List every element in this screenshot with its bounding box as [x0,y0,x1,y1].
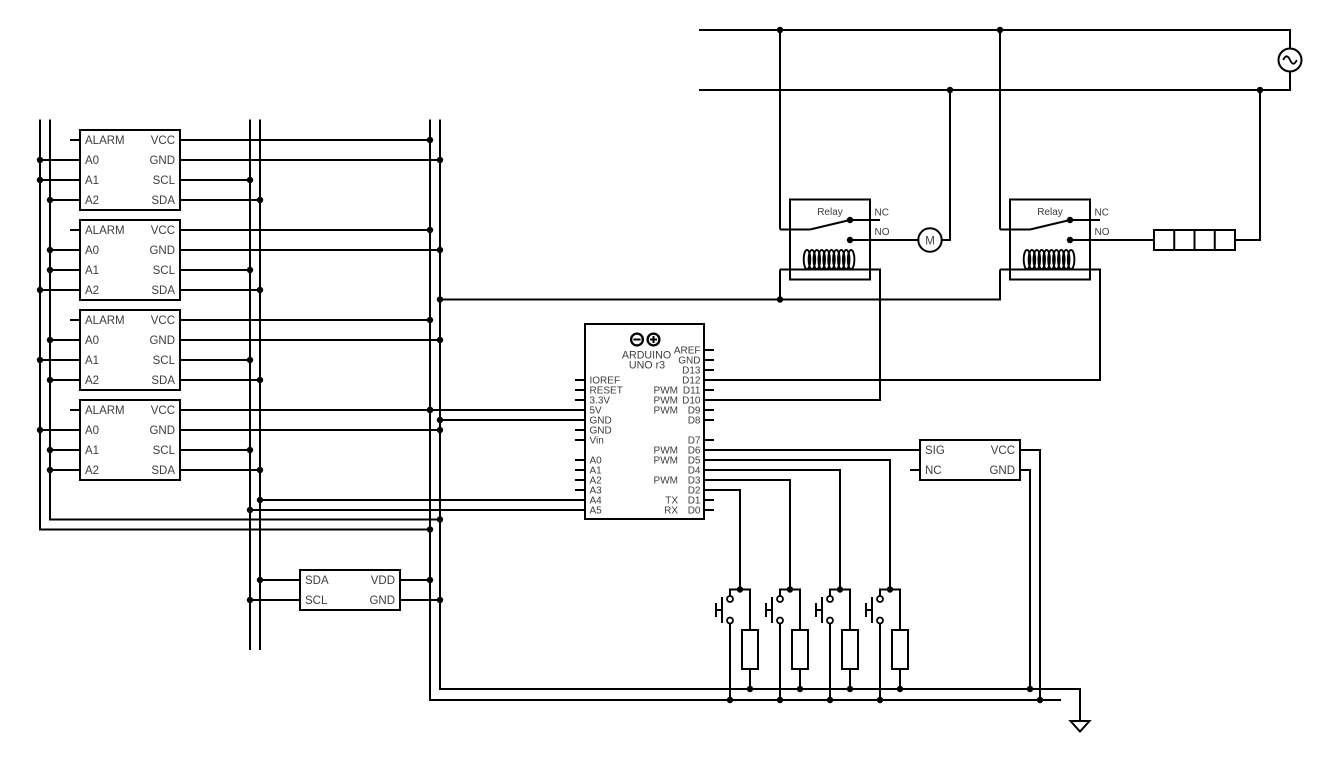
motor M1 [918,228,941,251]
wire Arduino D6 to servo SIG [704,449,920,451]
wire Arduino D5 to button S4 [704,460,890,590]
wire U3 A0 to bus [50,339,80,341]
wire Arduino D2 to button S1 [704,490,740,590]
svg-text:SDA: SDA [305,575,329,587]
wire U2 GND to GND rail [180,249,440,251]
svg-text:A0: A0 [85,155,99,167]
svg-text:A2: A2 [85,465,99,477]
svg-text:A1: A1 [85,175,99,187]
svg-text:RX: RX [664,506,678,517]
svg-text:A5: A5 [590,506,603,517]
Arduino UNO r3 U6 [575,324,714,519]
wire node to resistor R1 [740,590,750,631]
svg-text:PWM: PWM [654,406,678,417]
svg-text:SDA: SDA [151,465,175,477]
svg-text:NO: NO [875,227,890,238]
svg-text:ALARM: ALARM [85,135,125,147]
junction on 5V rail at x=430 [427,526,433,532]
wire SDA bus (x=260) [259,120,261,651]
pushbutton S2 [766,590,790,624]
svg-text:NC: NC [1095,208,1109,219]
svg-text:SCL: SCL [153,265,176,277]
svg-text:ALARM: ALARM [85,405,125,417]
svg-text:SCL: SCL [305,595,328,607]
svg-text:VCC: VCC [151,315,175,327]
junction on GND rail at x=440 [437,516,443,522]
wire relay K2 NO to heater [1070,239,1154,241]
wire U7 VCC to 5V row [1020,450,1040,700]
relay K2 [1000,200,1100,280]
svg-text:A1: A1 [85,445,99,457]
wire U5 SCL to SCL bus [250,599,300,601]
wire U3 SDA to SDA bus [180,379,260,381]
wire U1 A1 to bus [40,179,80,181]
wire U1 GND to GND rail [180,159,440,161]
svg-text:ALARM: ALARM [85,315,125,327]
svg-text:NC: NC [875,208,889,219]
wire U1 A0 to bus [40,159,80,161]
wire resistor R1 to GND row [749,669,751,689]
wire U1 SCL to SCL bus [180,179,250,181]
wire heater to AC neutral [1235,90,1260,240]
wire AC neutral [699,71,1290,90]
wire U3 VCC to 5V rail [180,319,430,321]
svg-text:GND: GND [149,335,175,347]
svg-text:A2: A2 [85,195,99,207]
pushbutton S3 [816,590,840,624]
svg-text:A0: A0 [85,335,99,347]
pushbutton S1 [716,590,740,624]
svg-text:UNO r3: UNO r3 [629,360,665,372]
svg-text:A2: A2 [85,375,99,387]
wire U4 VCC to 5V rail [180,409,430,411]
wire SCL bus (x=250) [249,120,251,651]
wire Arduino A5 to SCL bus [250,509,585,511]
wire U4 A2 to bus [50,469,80,471]
wire motor to AC neutral [942,90,950,240]
svg-text:GND: GND [989,465,1015,477]
wire relay K1 coil- to GND rail [440,270,1000,300]
resistor R2 [792,630,808,669]
alarm block U4 [70,400,180,480]
resistor R3 [842,630,858,669]
wire Arduino GND to GND rail [440,419,585,421]
svg-text:A0: A0 [85,425,99,437]
svg-text:GND: GND [149,245,175,257]
svg-text:SDA: SDA [151,285,175,297]
wire U4 SCL to SCL bus [180,449,250,451]
svg-text:GND: GND [149,155,175,167]
alarm block U3 [70,310,180,390]
svg-text:VCC: VCC [151,135,175,147]
svg-text:A0: A0 [85,245,99,257]
relay K1 [780,200,880,280]
junction button S3 node [837,586,843,592]
svg-text:SDA: SDA [151,375,175,387]
wire U4 GND to GND rail [180,429,440,431]
svg-text:A2: A2 [85,285,99,297]
wire U2 A0 to bus [50,249,80,251]
svg-text:GND: GND [149,425,175,437]
svg-text:NO: NO [1095,227,1110,238]
wire U4 A0 to bus [40,429,80,431]
wire U2 A2 to bus [40,289,80,291]
wire relay K2 common feed from AC line [999,30,1001,230]
svg-text:D0: D0 [688,506,701,517]
wire button S1 to 5V row [729,624,731,701]
wire U1 A2 to bus [50,199,80,201]
pushbutton S4 [866,590,890,624]
svg-text:SCL: SCL [153,175,176,187]
wire U4 SDA to SDA bus [180,469,260,471]
AC source V1 [1279,49,1302,72]
wire relay K1 coil left drop [779,270,781,300]
wire U7 GND to GND row [1020,470,1030,689]
wire resistor R3 to GND row [849,669,851,689]
junction heater return on AC neutral [1257,87,1263,93]
wire Arduino D10 to relay K1 coil [704,270,880,401]
svg-text:SCL: SCL [153,445,176,457]
wire U2 VCC to 5V rail [180,229,430,231]
wire U3 SCL to SCL bus [180,359,250,361]
wire Arduino D3 to button S2 [704,480,790,590]
svg-text:A1: A1 [85,265,99,277]
alarm block U1 [70,130,180,210]
svg-text:A1: A1 [85,355,99,367]
wire U5 VDD to 5V rail [400,579,430,581]
wire U5 SDA to SDA bus [260,579,300,581]
svg-text:D8: D8 [688,416,701,427]
svg-text:SDA: SDA [151,195,175,207]
svg-text:VCC: VCC [151,225,175,237]
svg-text:Relay: Relay [1037,207,1063,218]
svg-text:VCC: VCC [151,405,175,417]
wire AC line (top) [699,30,1290,49]
wire U3 A2 to bus [50,379,80,381]
wire node to resistor R4 [890,590,900,631]
svg-text:VDD: VDD [371,575,395,587]
wire node to resistor R3 [840,590,850,631]
svg-text:ALARM: ALARM [85,225,125,237]
svg-text:Vin: Vin [590,436,604,447]
wire relay K1 common feed from AC line [779,30,781,230]
svg-text:Relay: Relay [817,207,843,218]
wire U4 A1 to bus [50,449,80,451]
wire U1 SDA to SDA bus [180,199,260,201]
wire button S2 to 5V row [779,624,781,701]
wire U3 GND to GND rail [180,339,440,341]
svg-text:GND: GND [369,595,395,607]
wire U3 A1 to bus [40,359,80,361]
junction motor return on AC neutral [947,87,953,93]
wire U5 GND to GND rail [400,599,440,601]
wire GND rail (x=440) down to resistor ground row and earth [440,120,1080,722]
junction button S2 node [787,586,793,592]
svg-text:VCC: VCC [991,445,1015,457]
resistor R1 [742,630,758,669]
ground symbol [1071,721,1090,732]
resistor R4 [892,630,908,669]
servo U7 (SIG/NC VCC/GND) [910,440,1020,480]
heater H1 (4 segment element) [1154,230,1235,250]
wire U1 VCC to 5V rail [180,139,430,141]
wire Arduino D4 to button S3 [704,470,840,590]
wire resistor R2 to GND row [799,669,801,689]
svg-text:PWM: PWM [654,456,678,467]
junction button S4 node [887,586,893,592]
svg-text:SIG: SIG [925,445,945,457]
I2C device U5 (SDA/SCL VDD/GND) [300,570,400,610]
junction relay K1 common on AC line [777,27,783,33]
svg-text:SCL: SCL [153,355,176,367]
wire Arduino A4 to SDA bus [260,499,585,501]
wire relay K1 NO to motor [850,239,918,241]
svg-text:M: M [925,236,935,248]
svg-text:NC: NC [925,465,942,477]
svg-text:PWM: PWM [654,476,678,487]
wire Arduino 5V to 5V rail [430,409,585,411]
wire U2 SDA to SDA bus [180,289,260,291]
junction button S1 node [737,586,743,592]
wire button S4 to 5V row [879,624,881,701]
wire U2 A1 to bus [50,269,80,271]
wire Arduino D12 to relay K2 coil [704,270,1100,381]
wire 5V vertical bus (x=40) to 5V rail [40,120,430,530]
wire button S3 to 5V row [829,624,831,701]
wire node to resistor R2 [790,590,800,631]
wire 5V rail (x=430) down to button supply row [430,120,1061,701]
wire resistor R4 to GND row [899,669,901,689]
wire U2 SCL to SCL bus [180,269,250,271]
junction relay K2 common on AC line [997,27,1003,33]
wire GND vertical bus (x=50) to GND rail [50,120,440,520]
alarm block U2 [70,220,180,300]
